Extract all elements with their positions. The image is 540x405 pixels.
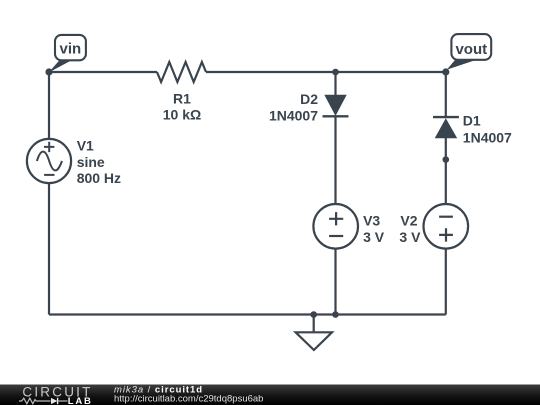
wire vout node down to D1 cathode — [445, 72, 447, 117]
ground stem — [313, 315, 315, 333]
svg-text:http://circuitlab.com/c29tdq8p: http://circuitlab.com/c29tdq8psu6ab — [114, 394, 263, 405]
V1 minus sign — [44, 174, 54, 176]
source V1 circle — [27, 139, 71, 183]
svg-text:D2: D2 — [300, 91, 318, 107]
junction dot between D1 and V2 — [443, 156, 450, 163]
V1 sine wave — [37, 152, 62, 171]
svg-text:1N4007: 1N4007 — [463, 129, 512, 145]
diode D1 triangle — [435, 118, 458, 138]
svg-text:D1: D1 — [463, 113, 481, 129]
V2 plus sign — [439, 228, 453, 241]
source V2 circle — [424, 204, 469, 249]
diode D2 triangle — [324, 95, 346, 116]
svg-text:3 V: 3 V — [363, 229, 385, 245]
label D2 value — [269, 91, 318, 124]
wire D2 cathode to V3 top — [334, 116, 336, 204]
wire V1 bottom to ground rail — [48, 183, 50, 315]
ground triangle — [296, 332, 332, 350]
node vin flag tail — [49, 59, 74, 73]
label R1 value — [163, 90, 201, 122]
wire R1 right lead to node vout — [206, 71, 446, 73]
wire vin node down to V1 top — [48, 72, 50, 139]
svg-text:800 Hz: 800 Hz — [77, 170, 121, 186]
svg-text:vin: vin — [60, 41, 82, 58]
svg-text:vout: vout — [455, 41, 487, 58]
diode D1 cathode bar — [433, 116, 459, 118]
label V2 value — [399, 213, 421, 245]
svg-text:LAB: LAB — [68, 396, 93, 405]
resistor R1 zigzag — [157, 62, 206, 82]
junction dot V3 branch bottom — [332, 311, 339, 318]
junction dot ground — [310, 311, 317, 318]
svg-text:V2: V2 — [400, 213, 417, 229]
source V3 circle — [313, 204, 358, 249]
wire bottom ground rail — [49, 313, 446, 315]
V2 minus sign — [439, 216, 453, 218]
node vout flag tail — [445, 59, 476, 72]
svg-text:V3: V3 — [363, 213, 380, 229]
wire V2 bottom to ground rail — [445, 249, 447, 315]
svg-text:3 V: 3 V — [399, 229, 421, 245]
svg-text:sine: sine — [77, 154, 105, 170]
label V3 value — [363, 213, 385, 245]
node vin flag box — [55, 35, 86, 60]
svg-text:1N4007: 1N4007 — [269, 108, 318, 124]
svg-text:V1: V1 — [77, 138, 94, 154]
junction dot D2 top — [332, 69, 339, 76]
node vin dot — [45, 68, 52, 75]
V3 plus sign — [329, 212, 343, 225]
wire node to D2 anode — [334, 72, 336, 95]
node vout dot — [442, 68, 449, 75]
svg-text:10 kΩ: 10 kΩ — [163, 106, 201, 122]
label V1 value — [77, 138, 121, 187]
wire vin node to R1 left lead — [49, 71, 157, 73]
wire D1 anode to V2 top — [445, 138, 447, 204]
svg-text:R1: R1 — [173, 90, 191, 106]
logo resistor zigzag — [19, 398, 51, 404]
diode D2 cathode bar — [323, 115, 349, 117]
V1 plus sign — [44, 142, 54, 152]
label D1 value — [463, 113, 512, 146]
node vout flag box — [451, 34, 491, 60]
logo diode — [51, 398, 57, 404]
wire V3 bottom to ground rail — [334, 249, 336, 315]
V3 minus sign — [329, 235, 343, 237]
